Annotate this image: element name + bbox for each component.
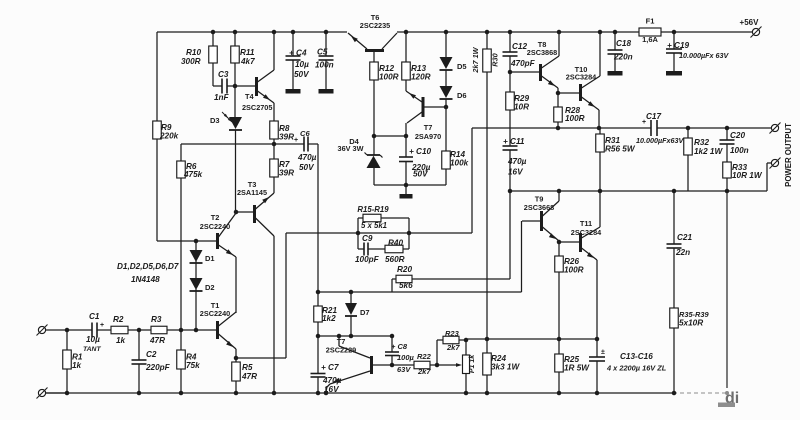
- svg-text:75k: 75k: [186, 361, 200, 370]
- svg-text:T4: T4: [245, 92, 255, 101]
- svg-text:3k3 1W: 3k3 1W: [491, 363, 520, 372]
- svg-text:POWER OUTPUT: POWER OUTPUT: [784, 123, 793, 187]
- svg-text:47R: 47R: [149, 336, 165, 345]
- svg-text:100n: 100n: [730, 146, 749, 155]
- svg-text:100R: 100R: [379, 73, 399, 82]
- svg-text:2SC2235: 2SC2235: [360, 21, 390, 30]
- svg-text:120R: 120R: [411, 73, 431, 82]
- svg-text:1R 5W: 1R 5W: [564, 364, 590, 373]
- svg-text:C20: C20: [730, 131, 745, 140]
- svg-text:+ C4: + C4: [289, 49, 307, 58]
- svg-text:39R: 39R: [279, 133, 294, 142]
- svg-text:39R: 39R: [279, 169, 294, 178]
- svg-text:10R 1W: 10R 1W: [732, 171, 763, 180]
- svg-text:100R: 100R: [565, 114, 585, 123]
- svg-text:R23: R23: [445, 329, 460, 338]
- svg-text:C3: C3: [218, 70, 229, 79]
- svg-text:2SA970: 2SA970: [415, 132, 441, 141]
- svg-text:C6: C6: [300, 129, 310, 138]
- svg-text:2SA1145: 2SA1145: [237, 188, 267, 197]
- svg-text:470µ: 470µ: [322, 376, 342, 385]
- svg-text:R3: R3: [151, 315, 162, 324]
- svg-text:50V: 50V: [294, 70, 310, 79]
- svg-text:22n: 22n: [675, 248, 690, 257]
- svg-text:10R: 10R: [514, 103, 529, 112]
- svg-text:5k6: 5k6: [399, 281, 413, 290]
- svg-text:5 x 5k1: 5 x 5k1: [361, 221, 387, 230]
- svg-text:R32: R32: [694, 138, 709, 147]
- svg-text:1k2: 1k2: [322, 314, 336, 323]
- svg-text:50V: 50V: [413, 170, 429, 179]
- svg-text:D1,D2,D5,D6,D7: D1,D2,D5,D6,D7: [117, 262, 179, 271]
- svg-text:2k7 1W: 2k7 1W: [471, 46, 480, 73]
- svg-text:±: ±: [601, 349, 605, 356]
- svg-text:+ C19: + C19: [667, 41, 690, 50]
- svg-text:4k7: 4k7: [240, 57, 255, 66]
- svg-text:2SC3284: 2SC3284: [571, 228, 602, 237]
- svg-text:2SC2705: 2SC2705: [242, 103, 272, 112]
- svg-text:1N4148: 1N4148: [131, 275, 160, 284]
- svg-text:2SC2240: 2SC2240: [200, 309, 230, 318]
- svg-text:10µ: 10µ: [86, 335, 100, 344]
- svg-text:R56 5W: R56 5W: [605, 145, 636, 154]
- svg-text:10.000µFx63V: 10.000µFx63V: [636, 136, 685, 145]
- svg-text:475k: 475k: [183, 170, 203, 179]
- svg-text:D7: D7: [360, 308, 370, 317]
- svg-text:5x10R: 5x10R: [679, 319, 703, 328]
- svg-text:C5: C5: [317, 48, 328, 57]
- svg-text:2SC2229: 2SC2229: [326, 346, 356, 355]
- svg-text:470pF: 470pF: [510, 59, 536, 68]
- svg-text:C13-C16: C13-C16: [620, 352, 653, 361]
- svg-text:+ C11: + C11: [503, 137, 525, 146]
- svg-text:1k2 1W: 1k2 1W: [694, 147, 723, 156]
- svg-text:10.000µFx 63V: 10.000µFx 63V: [679, 51, 730, 60]
- svg-text:36V 3W: 36V 3W: [338, 144, 364, 153]
- svg-text:D1: D1: [205, 254, 215, 263]
- svg-text:D6: D6: [457, 91, 467, 100]
- svg-text:+: +: [100, 322, 104, 329]
- svg-text:C18: C18: [616, 39, 631, 48]
- svg-text:560R: 560R: [385, 255, 405, 264]
- svg-text:2SC3868: 2SC3868: [527, 48, 557, 57]
- svg-text:470µ: 470µ: [507, 157, 527, 166]
- svg-text:4 x 2200µ 16V ZL: 4 x 2200µ 16V ZL: [606, 364, 667, 373]
- svg-text:D5: D5: [457, 62, 467, 71]
- svg-text:63V: 63V: [397, 365, 411, 374]
- svg-text:+ C8: + C8: [391, 342, 408, 351]
- svg-text:D3: D3: [210, 116, 220, 125]
- svg-text:C12: C12: [512, 42, 527, 51]
- svg-text:R15-R19: R15-R19: [357, 205, 389, 214]
- svg-text:1k: 1k: [72, 361, 82, 370]
- svg-text:100k: 100k: [450, 159, 469, 168]
- svg-text:2k7: 2k7: [417, 367, 431, 376]
- svg-text:10µ: 10µ: [295, 60, 309, 69]
- svg-text:2SC2240: 2SC2240: [200, 222, 230, 231]
- svg-text:R2: R2: [113, 315, 124, 324]
- svg-text:100R: 100R: [564, 266, 584, 275]
- svg-text:1,6A: 1,6A: [642, 35, 658, 44]
- svg-text:16V: 16V: [508, 168, 524, 177]
- svg-text:R30: R30: [491, 53, 500, 66]
- svg-text:TANT: TANT: [83, 346, 101, 353]
- svg-text:R10: R10: [186, 48, 201, 57]
- svg-text:+: +: [294, 137, 298, 144]
- svg-text:D2: D2: [205, 283, 215, 292]
- svg-text:C9: C9: [362, 234, 373, 243]
- svg-text:R20: R20: [397, 265, 412, 274]
- svg-text:R40: R40: [388, 238, 403, 247]
- svg-text:2k7: 2k7: [446, 343, 460, 352]
- svg-text:R11: R11: [240, 48, 255, 57]
- svg-text:1k: 1k: [116, 336, 126, 345]
- svg-text:16V: 16V: [324, 385, 340, 394]
- svg-text:2SC3284: 2SC3284: [566, 73, 597, 82]
- svg-text:T11: T11: [580, 219, 592, 228]
- svg-text:100pF: 100pF: [355, 255, 380, 264]
- svg-text:+: +: [642, 119, 646, 126]
- svg-text:47R: 47R: [241, 372, 257, 381]
- svg-text:R5: R5: [242, 363, 253, 372]
- svg-text:C21: C21: [677, 233, 692, 242]
- svg-text:+ C7: + C7: [321, 363, 339, 372]
- svg-text:300R: 300R: [181, 57, 201, 66]
- svg-text:T7: T7: [424, 123, 433, 132]
- svg-text:P1 1k: P1 1k: [469, 354, 476, 373]
- svg-text:T2: T2: [211, 213, 220, 222]
- svg-text:C1: C1: [89, 312, 100, 321]
- svg-text:R22: R22: [417, 352, 432, 361]
- svg-text:2SC3668: 2SC3668: [524, 203, 554, 212]
- svg-text:220pF: 220pF: [145, 363, 171, 372]
- svg-text:F1: F1: [646, 17, 655, 26]
- svg-text:C2: C2: [146, 350, 157, 359]
- svg-text:100µ: 100µ: [397, 353, 415, 362]
- svg-text:+ C10: + C10: [409, 147, 432, 156]
- svg-text:C17: C17: [646, 112, 661, 121]
- svg-text:220k: 220k: [159, 132, 179, 141]
- svg-text:100n: 100n: [315, 61, 334, 70]
- svg-text:+56V: +56V: [740, 18, 760, 27]
- svg-text:1nF: 1nF: [214, 93, 230, 102]
- svg-text:470µ: 470µ: [297, 153, 317, 162]
- svg-text:50V: 50V: [299, 163, 315, 172]
- svg-text:220n: 220n: [613, 53, 633, 62]
